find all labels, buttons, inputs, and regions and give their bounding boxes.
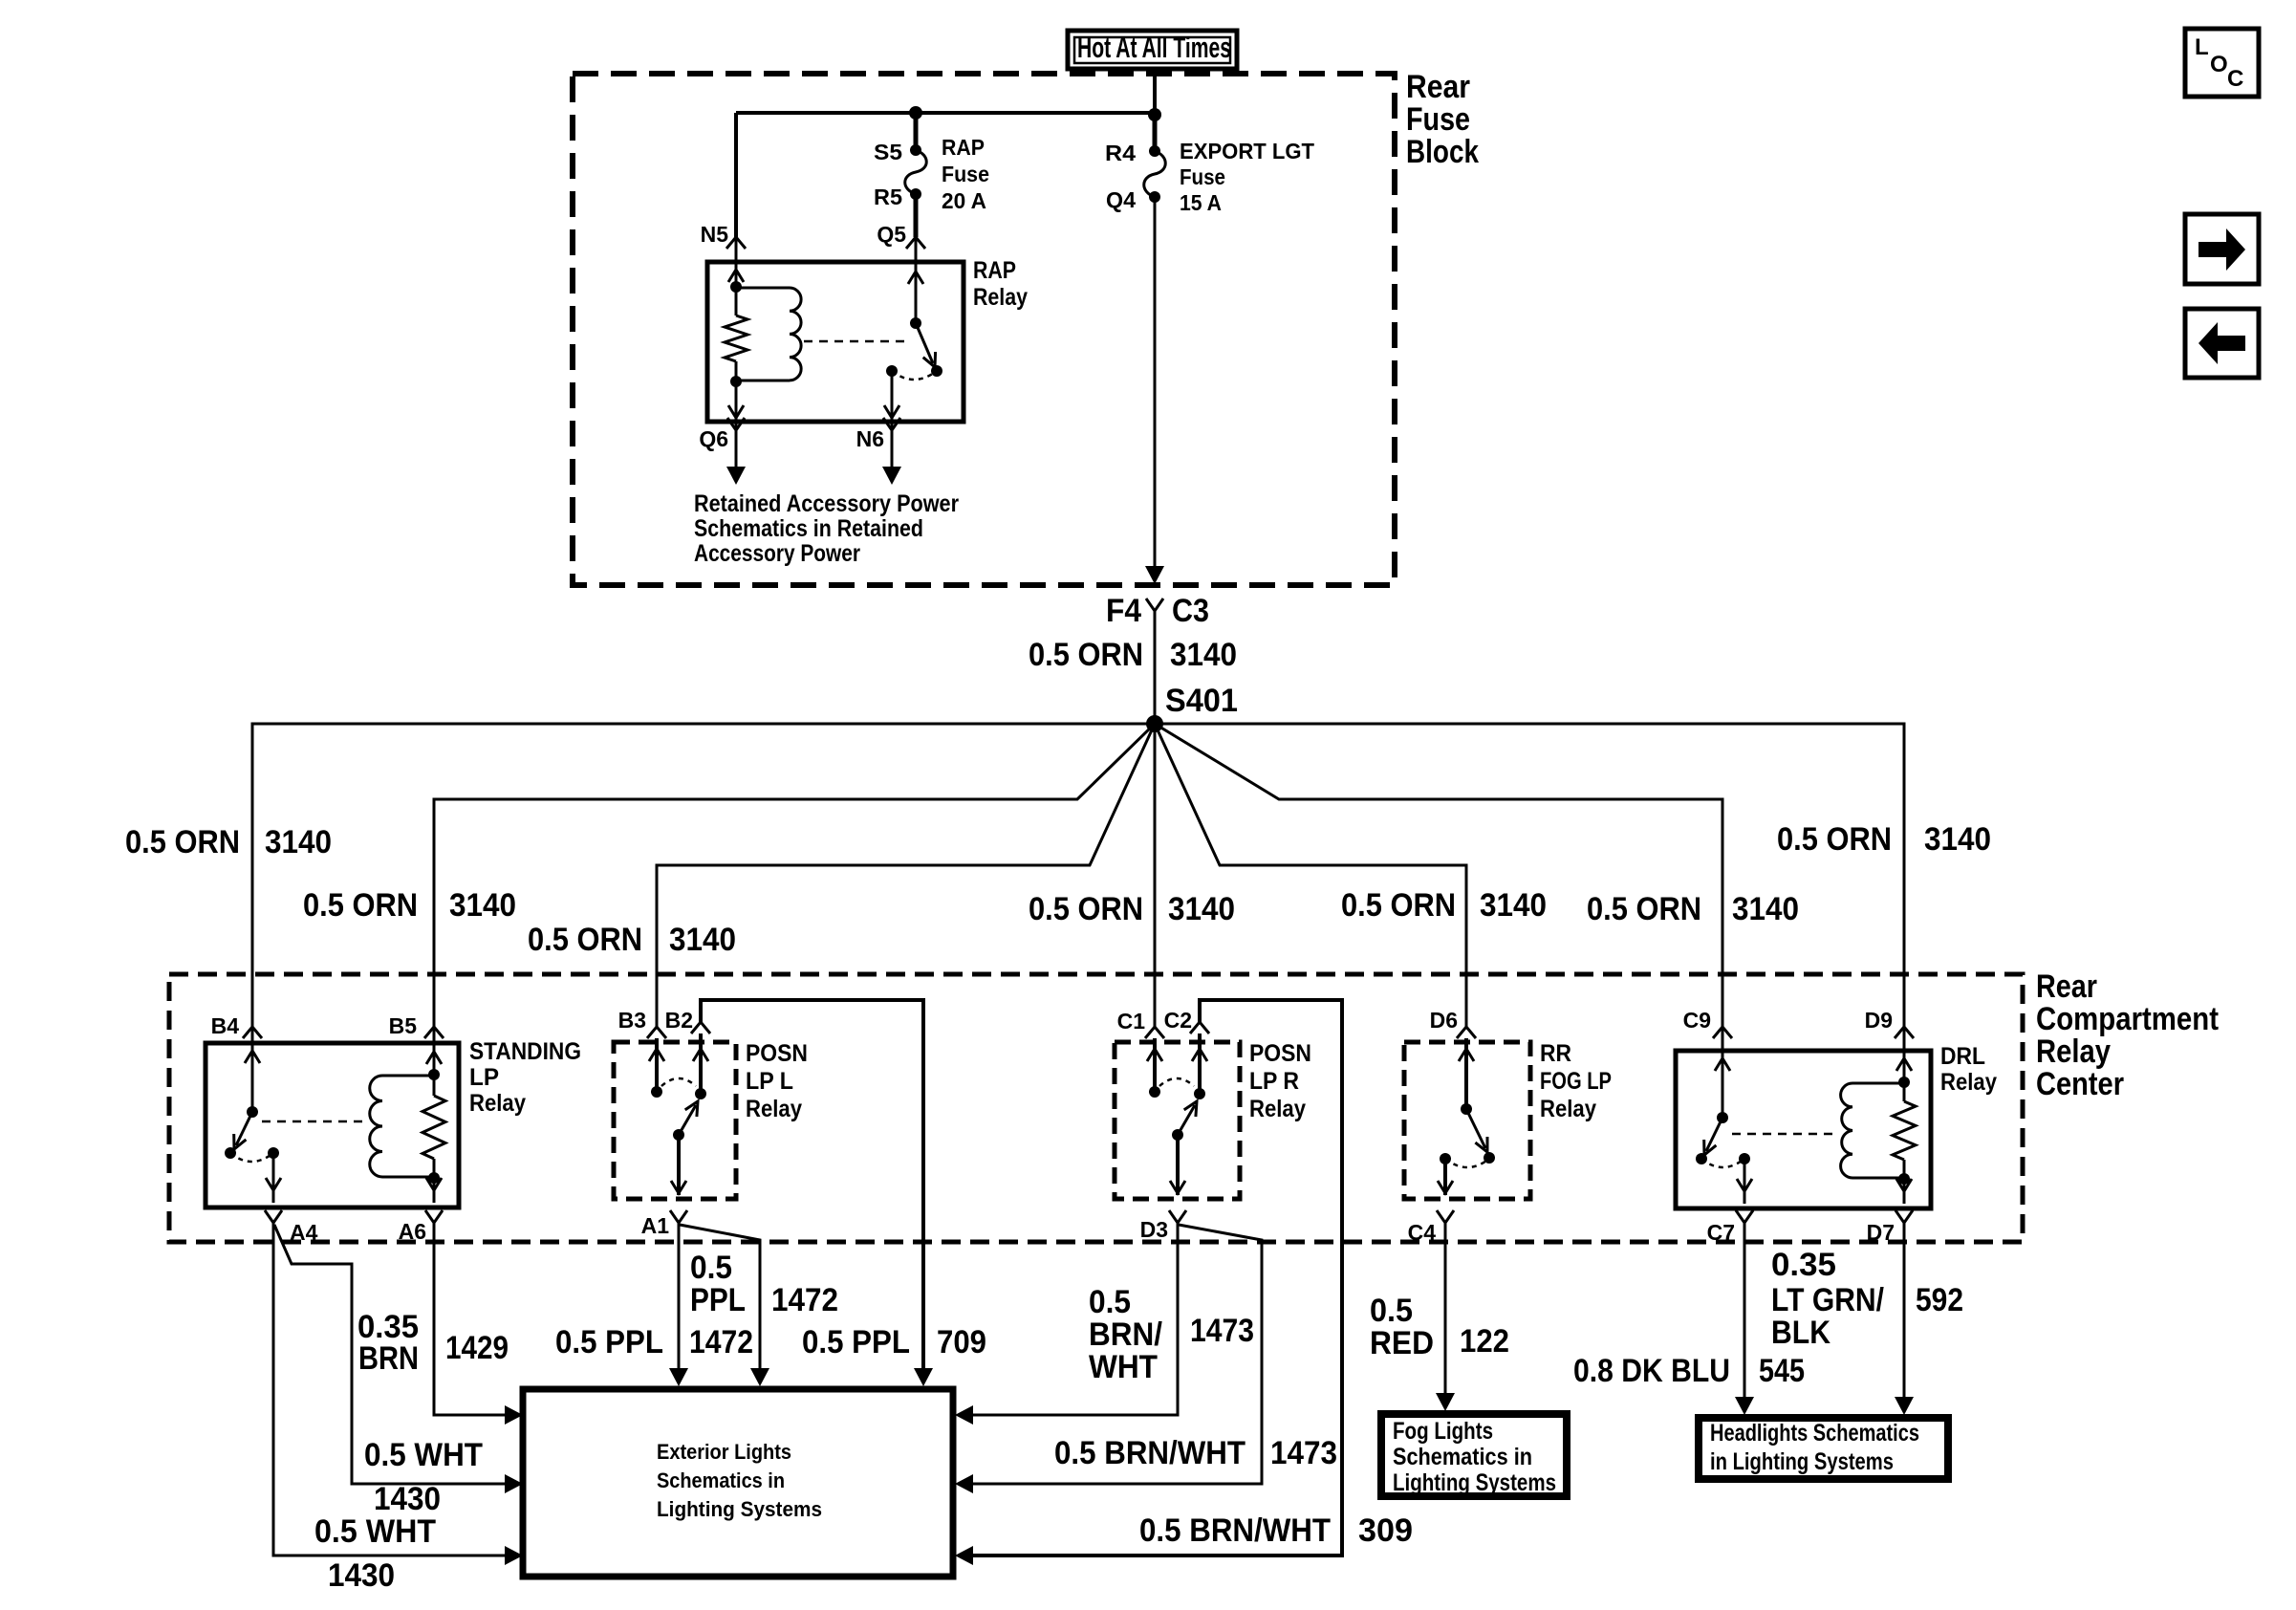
- svg-text:N6: N6: [856, 426, 884, 451]
- connector N5: [701, 222, 746, 249]
- STANDING LP relay dashed link: [262, 1120, 368, 1123]
- svg-text:BRN/: BRN/: [1089, 1316, 1163, 1353]
- connector B2: [665, 1008, 710, 1033]
- wire label: 0.5 WHT 1430 (A4): [314, 1513, 436, 1594]
- splice S401: [1146, 683, 1238, 732]
- POSN LP L lead to A1: [671, 1135, 686, 1195]
- svg-text:Relay: Relay: [2036, 1033, 2111, 1070]
- POSN LP R fixed contact C2: [1192, 1033, 1207, 1099]
- wire label: 0.5 ORN 3140 (D6): [1341, 887, 1547, 924]
- wire: stub to RAP fuse: [914, 113, 919, 150]
- svg-text:3140: 3140: [265, 824, 332, 860]
- relay POSN LP L box (dashed): [614, 1040, 808, 1199]
- svg-text:Q6: Q6: [699, 426, 728, 451]
- wire label: 0.5 BRN/WHT 1473: [1054, 1435, 1337, 1471]
- wire label: 0.5 ORN 3140 (C1): [1029, 891, 1235, 927]
- svg-text:0.5 ORN: 0.5 ORN: [303, 887, 418, 924]
- wire: stub to EXPORT LGT fuse: [1153, 115, 1158, 151]
- svg-text:15 A: 15 A: [1180, 190, 1222, 215]
- svg-text:0.5 ORN: 0.5 ORN: [125, 824, 240, 860]
- svg-text:0.5 PPL: 0.5 PPL: [802, 1324, 910, 1360]
- svg-text:592: 592: [1916, 1282, 1963, 1318]
- wire: S401 to C9: [1155, 724, 1722, 1027]
- wire label: 0.35 BRN 1429: [357, 1309, 509, 1377]
- svg-text:POSN: POSN: [746, 1040, 808, 1067]
- svg-text:3140: 3140: [1480, 887, 1547, 924]
- svg-text:0.5 ORN: 0.5 ORN: [1029, 637, 1143, 673]
- POSN LP R fixed contact C1: [1147, 1038, 1162, 1098]
- svg-text:3140: 3140: [669, 922, 736, 958]
- svg-text:Accessory Power: Accessory Power: [694, 540, 860, 567]
- svg-text:F4: F4: [1106, 593, 1141, 629]
- POSN LP L fixed contact B2: [693, 1033, 708, 1099]
- relay DRL Relay box: [1676, 1043, 1997, 1208]
- wire label: 0.5 PPL 1472 (stacked): [690, 1250, 838, 1318]
- svg-text:WHT: WHT: [1089, 1349, 1158, 1385]
- wire label: 0.5 WHT 1430 (A4 branch): [364, 1437, 483, 1517]
- svg-text:Schematics in: Schematics in: [657, 1469, 785, 1492]
- svg-text:545: 545: [1759, 1353, 1805, 1389]
- wire label: 0.5 BRN/WHT 1473 (stacked): [1089, 1284, 1254, 1385]
- wire: A4 to Exterior Lights (1430): [273, 1223, 523, 1565]
- svg-text:Relay: Relay: [1249, 1096, 1306, 1122]
- STANDING LP relay coil: [370, 1076, 434, 1177]
- svg-text:C9: C9: [1683, 1008, 1711, 1033]
- connector D7: [1867, 1210, 1913, 1245]
- svg-text:LT GRN/: LT GRN/: [1771, 1282, 1884, 1318]
- svg-text:C3: C3: [1172, 593, 1209, 629]
- svg-text:O: O: [2210, 52, 2228, 77]
- svg-text:1473: 1473: [1190, 1313, 1254, 1349]
- connector Q6: [699, 418, 746, 485]
- svg-text:Q4: Q4: [1106, 187, 1136, 212]
- wire: feed bus horizontal: [736, 111, 1155, 115]
- wire label: 0.5 ORN 3140 (B3): [528, 922, 736, 958]
- svg-text:N5: N5: [701, 222, 729, 247]
- STANDING LP relay resistor lead (B5-A6): [422, 1027, 445, 1203]
- svg-text:Retained Accessory Power: Retained Accessory Power: [694, 490, 959, 517]
- icon: arrow left box: [2185, 309, 2259, 378]
- wire: S401 to C1: [1154, 724, 1157, 1027]
- svg-text:Lighting Systems: Lighting Systems: [657, 1497, 822, 1521]
- connector C9: [1683, 1008, 1732, 1038]
- note: Retained Accessory Power: [694, 490, 959, 567]
- svg-text:Rear: Rear: [1406, 69, 1470, 105]
- wire: RAP fuse to Q5: [914, 194, 919, 237]
- svg-text:C7: C7: [1707, 1220, 1735, 1245]
- svg-text:D6: D6: [1430, 1008, 1458, 1033]
- connector N6: [856, 418, 901, 485]
- connector C1: [1117, 1009, 1164, 1038]
- connector B5: [389, 1013, 444, 1038]
- wire: D3 branch to Exterior Lights (1473): [955, 1225, 1262, 1493]
- icon: arrow right box: [2185, 214, 2259, 284]
- relay POSN LP R box (dashed): [1115, 1040, 1311, 1199]
- wire label: 0.5 BRN/WHT 309: [1139, 1512, 1413, 1549]
- DRL relay switch (C9-C7): [1696, 1027, 1752, 1204]
- DRL relay coil: [1841, 1083, 1904, 1178]
- svg-text:Rear: Rear: [2036, 968, 2097, 1005]
- wire label: 0.5 PPL 1472: [555, 1324, 753, 1360]
- svg-text:A1: A1: [641, 1213, 670, 1238]
- wire label: 0.5 ORN 3140 (D9): [1777, 821, 1991, 858]
- svg-text:Relay: Relay: [746, 1096, 802, 1122]
- connector C2: [1164, 1008, 1209, 1033]
- RAP relay coil lead (N5-Q6): [725, 237, 747, 430]
- wire label: 0.5 ORN 3140 (B4): [125, 824, 332, 860]
- wire: EXPORT LGT fuse down to F4: [1145, 197, 1164, 584]
- svg-text:C1: C1: [1117, 1009, 1146, 1033]
- svg-text:0.5: 0.5: [1370, 1293, 1413, 1329]
- svg-text:B3: B3: [618, 1008, 646, 1033]
- icon: LOC legend box: [2185, 29, 2259, 97]
- svg-text:R4: R4: [1105, 141, 1136, 165]
- connector F4 / C3: [1106, 593, 1209, 629]
- DRL relay resistor lead (D9-D7): [1893, 1027, 1916, 1204]
- svg-text:Relay: Relay: [1940, 1069, 1997, 1096]
- box: Headlights Schematics in Lighting Systems: [1699, 1418, 1948, 1479]
- svg-text:in Lighting Systems: in Lighting Systems: [1710, 1448, 1894, 1475]
- svg-text:C4: C4: [1408, 1220, 1437, 1245]
- svg-text:1472: 1472: [771, 1282, 838, 1318]
- wire: A1 branch to Exterior Lights (1472): [680, 1225, 769, 1386]
- RR FOG LP switch arm: [1466, 1109, 1495, 1164]
- RAP relay coil: [736, 288, 801, 381]
- svg-text:1430: 1430: [328, 1557, 395, 1594]
- fuse RAP Fuse 20 A: [874, 135, 989, 213]
- svg-text:0.5 WHT: 0.5 WHT: [364, 1437, 483, 1473]
- svg-text:Compartment: Compartment: [2036, 1001, 2219, 1037]
- POSN LP L contact arc (dashed): [661, 1078, 696, 1086]
- svg-text:C: C: [2227, 66, 2243, 92]
- POSN LP L switch arm: [673, 1101, 698, 1141]
- wire: D7 to Headlights (592): [1895, 1223, 1914, 1415]
- Rear Fuse Block enclosure (dashed): [573, 74, 1395, 585]
- svg-text:3140: 3140: [449, 887, 516, 924]
- svg-text:20 A: 20 A: [942, 188, 986, 213]
- svg-text:Relay: Relay: [1540, 1096, 1596, 1122]
- svg-text:3140: 3140: [1732, 891, 1799, 927]
- svg-text:EXPORT LGT: EXPORT LGT: [1180, 139, 1314, 163]
- wire label: 0.5 PPL 709: [802, 1324, 986, 1360]
- wire: C4 to Fog Lights (122): [1436, 1223, 1455, 1411]
- svg-text:B2: B2: [665, 1008, 693, 1033]
- box: Exterior Lights Schematics in Lighting Systems: [523, 1389, 953, 1577]
- svg-text:Fuse: Fuse: [942, 162, 989, 186]
- svg-text:Fuse: Fuse: [1406, 101, 1470, 138]
- wire label: 0.5 RED 122: [1370, 1293, 1509, 1361]
- svg-text:DRL: DRL: [1940, 1043, 1985, 1070]
- svg-text:Center: Center: [2036, 1066, 2124, 1102]
- label: Rear Compartment Relay Center: [2036, 968, 2219, 1102]
- wire: B2 to Exterior Lights (709): [701, 1000, 933, 1386]
- svg-text:BRN: BRN: [358, 1340, 419, 1377]
- svg-text:D7: D7: [1867, 1220, 1895, 1245]
- box: Fog Lights Schematics in Lighting Systems: [1381, 1414, 1567, 1496]
- RR FOG LP lead D6: [1459, 1038, 1474, 1115]
- wire label: 0.8 DK BLU 545: [1573, 1353, 1805, 1389]
- svg-text:BLK: BLK: [1771, 1315, 1830, 1351]
- wire: S401 to D6: [1155, 724, 1466, 1027]
- DRL relay dashed link: [1732, 1133, 1837, 1136]
- svg-text:Relay: Relay: [973, 284, 1028, 311]
- svg-text:FOG LP: FOG LP: [1540, 1068, 1612, 1095]
- svg-text:RED: RED: [1370, 1325, 1434, 1361]
- wire label: 0.5 ORN 3140 (feed): [1029, 637, 1237, 673]
- svg-text:1430: 1430: [374, 1481, 441, 1517]
- Rear Compartment Relay Center enclosure (dashed): [169, 974, 2023, 1242]
- svg-text:Schematics in: Schematics in: [1393, 1444, 1532, 1470]
- relay STANDING LP Relay box: [206, 1038, 581, 1207]
- svg-text:0.5 PPL: 0.5 PPL: [555, 1324, 663, 1360]
- svg-text:709: 709: [937, 1324, 986, 1360]
- RAP relay switch (Q5-N6): [884, 237, 942, 430]
- svg-text:A4: A4: [290, 1220, 318, 1245]
- svg-text:Exterior Lights: Exterior Lights: [657, 1440, 791, 1464]
- svg-text:0.5 ORN: 0.5 ORN: [1029, 891, 1143, 927]
- svg-text:RR: RR: [1540, 1040, 1571, 1067]
- wire label: 0.35 LT GRN/BLK 592: [1771, 1247, 1963, 1351]
- POSN LP R lead to D3: [1170, 1135, 1185, 1195]
- svg-text:Hot At All Times: Hot At All Times: [1077, 31, 1231, 64]
- connector B3: [618, 1008, 666, 1038]
- POSN LP R contact arc (dashed): [1159, 1078, 1194, 1086]
- svg-text:B5: B5: [389, 1013, 418, 1038]
- svg-text:LP L: LP L: [746, 1068, 793, 1095]
- svg-text:POSN: POSN: [1249, 1040, 1311, 1067]
- connector Q5: [877, 222, 925, 249]
- svg-text:Relay: Relay: [469, 1090, 526, 1117]
- svg-text:Fog Lights: Fog Lights: [1393, 1418, 1493, 1445]
- wire: S401 to B3: [657, 724, 1155, 1027]
- junction node above RAP fuse: [909, 106, 922, 120]
- svg-text:1473: 1473: [1270, 1435, 1337, 1471]
- svg-text:3140: 3140: [1170, 637, 1237, 673]
- wire: S401 to B5: [434, 724, 1155, 1027]
- wire: C3 to splice S401: [1154, 611, 1157, 724]
- connector D3: [1140, 1210, 1186, 1242]
- wire: A4 branch to Exterior Lights (1430): [274, 1225, 523, 1493]
- svg-text:Q5: Q5: [877, 222, 906, 247]
- wire: feed drop to N5: [734, 113, 738, 237]
- svg-text:L: L: [2195, 34, 2209, 60]
- svg-text:D3: D3: [1140, 1217, 1168, 1242]
- svg-text:0.5: 0.5: [1089, 1284, 1131, 1320]
- label box: Hot At All Times: [1068, 31, 1237, 69]
- label: Rear Fuse Block: [1406, 69, 1479, 170]
- svg-text:R5: R5: [874, 185, 902, 209]
- svg-text:Block: Block: [1406, 134, 1479, 170]
- svg-text:S401: S401: [1165, 683, 1238, 719]
- wire: C2 to Exterior Lights (309): [955, 1000, 1342, 1565]
- svg-text:0.35: 0.35: [1771, 1247, 1836, 1283]
- svg-text:309: 309: [1358, 1512, 1413, 1549]
- connector C7: [1707, 1210, 1753, 1245]
- svg-text:PPL: PPL: [690, 1282, 746, 1318]
- svg-text:0.5 ORN: 0.5 ORN: [1341, 887, 1456, 924]
- wire: S401 to B4: [252, 724, 1155, 1027]
- connector A6: [399, 1210, 443, 1244]
- connector D9: [1865, 1008, 1914, 1038]
- wire: A6 to Exterior Lights (1429): [434, 1223, 523, 1425]
- RR FOG LP contact arc (dashed): [1445, 1159, 1489, 1167]
- svg-text:0.5 WHT: 0.5 WHT: [314, 1513, 436, 1550]
- svg-text:Headlights Schematics: Headlights Schematics: [1710, 1420, 1919, 1447]
- svg-text:Schematics in Retained: Schematics in Retained: [694, 515, 923, 542]
- svg-text:STANDING: STANDING: [469, 1038, 581, 1065]
- svg-text:1429: 1429: [445, 1330, 509, 1366]
- svg-text:RAP: RAP: [973, 257, 1016, 284]
- wire: hot feed into fuse block: [1153, 69, 1157, 117]
- svg-text:D9: D9: [1865, 1008, 1893, 1033]
- connector B4: [211, 1013, 262, 1038]
- svg-text:122: 122: [1460, 1323, 1509, 1360]
- relay RR FOG LP box (dashed): [1404, 1040, 1612, 1199]
- svg-text:Lighting Systems: Lighting Systems: [1393, 1469, 1556, 1496]
- svg-text:LP: LP: [469, 1064, 499, 1091]
- svg-text:C2: C2: [1164, 1008, 1192, 1033]
- svg-text:RAP: RAP: [942, 135, 985, 160]
- svg-text:Fuse: Fuse: [1180, 164, 1225, 189]
- connector A1: [641, 1210, 687, 1238]
- svg-text:0.5 ORN: 0.5 ORN: [1777, 821, 1892, 858]
- wire label: 0.5 ORN 3140 (C9): [1587, 891, 1799, 927]
- svg-text:0.5 BRN/WHT: 0.5 BRN/WHT: [1054, 1435, 1245, 1471]
- wire: A1 to Exterior Lights (1472): [669, 1223, 688, 1386]
- svg-text:0.5 BRN/WHT: 0.5 BRN/WHT: [1139, 1512, 1331, 1549]
- wire: S401 to D9: [1155, 724, 1904, 1027]
- svg-text:3140: 3140: [1924, 821, 1991, 858]
- connector C4: [1408, 1210, 1454, 1245]
- svg-text:1472: 1472: [689, 1324, 753, 1360]
- wire label: 0.5 ORN 3140 (B5): [303, 887, 516, 924]
- svg-text:A6: A6: [399, 1219, 426, 1244]
- svg-text:3140: 3140: [1168, 891, 1235, 927]
- svg-text:0.5: 0.5: [690, 1250, 732, 1286]
- svg-text:0.5 ORN: 0.5 ORN: [528, 922, 642, 958]
- svg-text:0.8 DK BLU: 0.8 DK BLU: [1573, 1353, 1730, 1389]
- svg-text:0.5 ORN: 0.5 ORN: [1587, 891, 1701, 927]
- fuse EXPORT LGT Fuse 15 A: [1105, 139, 1314, 215]
- wire: C7 to Headlights (545): [1735, 1223, 1754, 1415]
- svg-text:LP R: LP R: [1249, 1068, 1299, 1095]
- RR FOG LP lead to C4: [1438, 1153, 1453, 1195]
- connector A4: [265, 1210, 318, 1245]
- relay RAP Relay box: [707, 257, 1028, 422]
- POSN LP L fixed contact B3: [649, 1038, 664, 1098]
- svg-text:S5: S5: [874, 140, 902, 164]
- svg-text:B4: B4: [211, 1013, 240, 1038]
- connector D6: [1430, 1008, 1476, 1038]
- STANDING LP relay switch (B4-A4): [225, 1027, 281, 1203]
- wire: D3 to Exterior Lights (1473): [955, 1223, 1178, 1425]
- junction node above EXPORT LGT fuse: [1148, 108, 1161, 121]
- RAP relay dashed link: [804, 340, 906, 343]
- POSN LP R switch arm: [1172, 1101, 1197, 1141]
